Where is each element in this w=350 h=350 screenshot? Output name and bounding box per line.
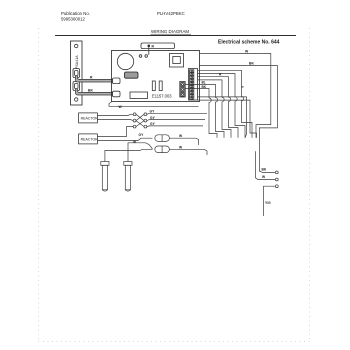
mains terminal W [275,178,278,181]
board plug 1 [113,78,121,84]
svg-text:Electrical scheme No. 644: Electrical scheme No. 644 [218,40,280,46]
reactor 1 [79,113,98,123]
wire W filter1 right [169,138,198,145]
wire from pin 1 to vertical V6 [198,70,242,96]
capacitor bar 1 [152,81,155,91]
control board E1157.003 outline [112,51,200,102]
igniter electrode 2 [124,162,132,192]
svg-text:GY: GY [150,116,156,120]
wire igniter1 to filter2 [105,149,153,161]
wire from pin 2 to vertical V5 [198,74,236,97]
svg-text:GY: GY [139,133,145,137]
wire igniter2 to filter1 feed (crossing) [128,143,153,162]
mains terminal ground [275,185,278,188]
wire R (thick) from PSA41A to board [77,76,114,81]
svg-text:PLHV42PBKC: PLHV42PBKC [157,11,185,16]
svg-text:BL: BL [202,81,206,85]
spark module PSA41A [71,41,83,105]
board IC rectangle [130,92,148,99]
wire BK from 3-pin connector to vertical V1 [185,89,209,99]
wire GY crossover row2 right [147,120,205,121]
board pin circles top [139,55,142,58]
mains terminal BK [275,171,278,174]
PSA41A connector 2 [73,82,80,91]
vertical V5 with hop [235,97,245,138]
wire R from pin 3 to vertical V4 [198,77,229,97]
svg-text:Publication No.: Publication No. [61,11,90,16]
crossing wire with hops (lower board wires) [198,97,247,138]
board transformer square [170,54,184,68]
vertical V6 with hop [242,97,253,138]
wire BK (thick) from PSA41A to board [77,89,114,94]
svg-text:E1157.003: E1157.003 [152,94,172,99]
filter capacitor 1 (pill) [155,135,170,142]
vertical V3 with hop [222,97,231,137]
svg-text:WIRING DIAGRAM: WIRING DIAGRAM [151,29,189,34]
svg-text:BK: BK [202,85,207,89]
wire from pin 4 to vertical V3 [198,80,223,98]
svg-text:PSA41A: PSA41A [75,55,79,69]
svg-text:BK: BK [88,89,93,93]
svg-text:GY: GY [150,110,156,114]
board relay (dark component) [125,72,139,78]
crossover connectors (3 rows) [133,113,147,128]
board buzzer (large circle) [117,53,133,69]
header rule [55,35,296,37]
wire GY crossover row3 right [147,125,203,128]
wire W from board to right run [200,54,271,138]
svg-text:Y/G: Y/G [265,201,271,205]
svg-text:GY: GY [150,122,156,126]
wire BL from 3-pin connector to vertical V2 [185,85,215,98]
wire reactor2 to crossover row3 [97,127,133,137]
vertical V2 with hop [216,98,225,138]
PSA41A connector 1 [73,69,80,78]
svg-text:REACTOR: REACTOR [81,117,99,121]
wire W under board [109,104,199,107]
svg-text:BK: BK [249,61,254,65]
vertical V1 with hop [209,98,217,138]
filter capacitor 2 (pill) [155,146,170,153]
board plug 2 [113,91,121,97]
wire W filter2 right [169,149,207,155]
wire GY crossover row1 right [147,113,207,114]
jumper bracket R on top of board [141,43,175,49]
wire reactor1 to crossover row1 [97,114,133,115]
wire BK from board to right run [200,66,278,173]
wire GY reactor2 to filter1 [97,138,152,140]
wire reactor1 to crossover row2 [97,120,133,121]
board 3-pin connector [180,82,185,98]
svg-text:BK: BK [262,168,267,172]
igniter electrode 1 [101,162,109,192]
svg-text:5995360012: 5995360012 [61,17,86,22]
reactor 2 [79,134,98,144]
capacitor bar 2 [159,81,162,91]
vertical V4 with hop [229,97,239,138]
svg-text:REACTOR: REACTOR [81,138,99,142]
board edge connector (right strip) [189,69,198,101]
